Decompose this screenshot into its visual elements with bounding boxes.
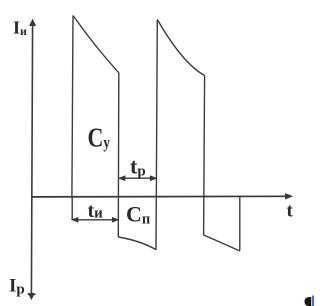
pulse 2 right edge (wire through axis): [204, 76, 205, 236]
pause pulse 2 bottom curve: [204, 235, 240, 251]
pilcrow mark (page marker, bottom right): [304, 296, 313, 306]
svg-text:t: t: [287, 201, 294, 222]
pulse 2 left edge (wire, full height): [156, 20, 157, 251]
pause pulse 1 bottom curve: [118, 237, 156, 250]
pulse 1 decay curve: [73, 16, 119, 73]
axis X (time axis): [32, 194, 292, 199]
pulse 2 decay curve: [157, 20, 204, 76]
pulse 1 left edge (wire): [72, 16, 73, 197]
axis Y (current axis): [28, 20, 36, 298]
pulse 1 right edge (wire through axis): [117, 73, 120, 237]
dimension tи (pulse duration): [72, 197, 118, 222]
pause pulse 2 right edge (wire to axis): [239, 197, 241, 251]
dimension tр (pause duration): [119, 176, 156, 181]
